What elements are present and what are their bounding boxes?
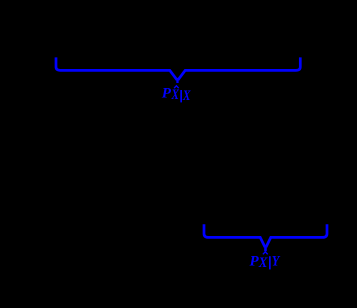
label P_{Xhat|X} bbox=[162, 86, 191, 104]
svg-text:X: X bbox=[182, 88, 191, 104]
svg-text:X: X bbox=[171, 87, 180, 103]
brace bottom (horizontal brace spanning Y-to-Xhat) bbox=[204, 224, 327, 251]
svg-text:Y: Y bbox=[272, 254, 281, 270]
label P_{Xhat|Y} bbox=[250, 252, 281, 271]
brace top (horizontal brace spanning X-to-Xhat) bbox=[56, 57, 300, 83]
svg-text:P: P bbox=[162, 86, 172, 102]
svg-text:X: X bbox=[258, 255, 268, 271]
